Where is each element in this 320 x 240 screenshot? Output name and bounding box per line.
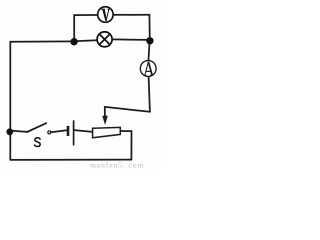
svg-text:manfen5. com: manfen5. com xyxy=(90,160,144,169)
